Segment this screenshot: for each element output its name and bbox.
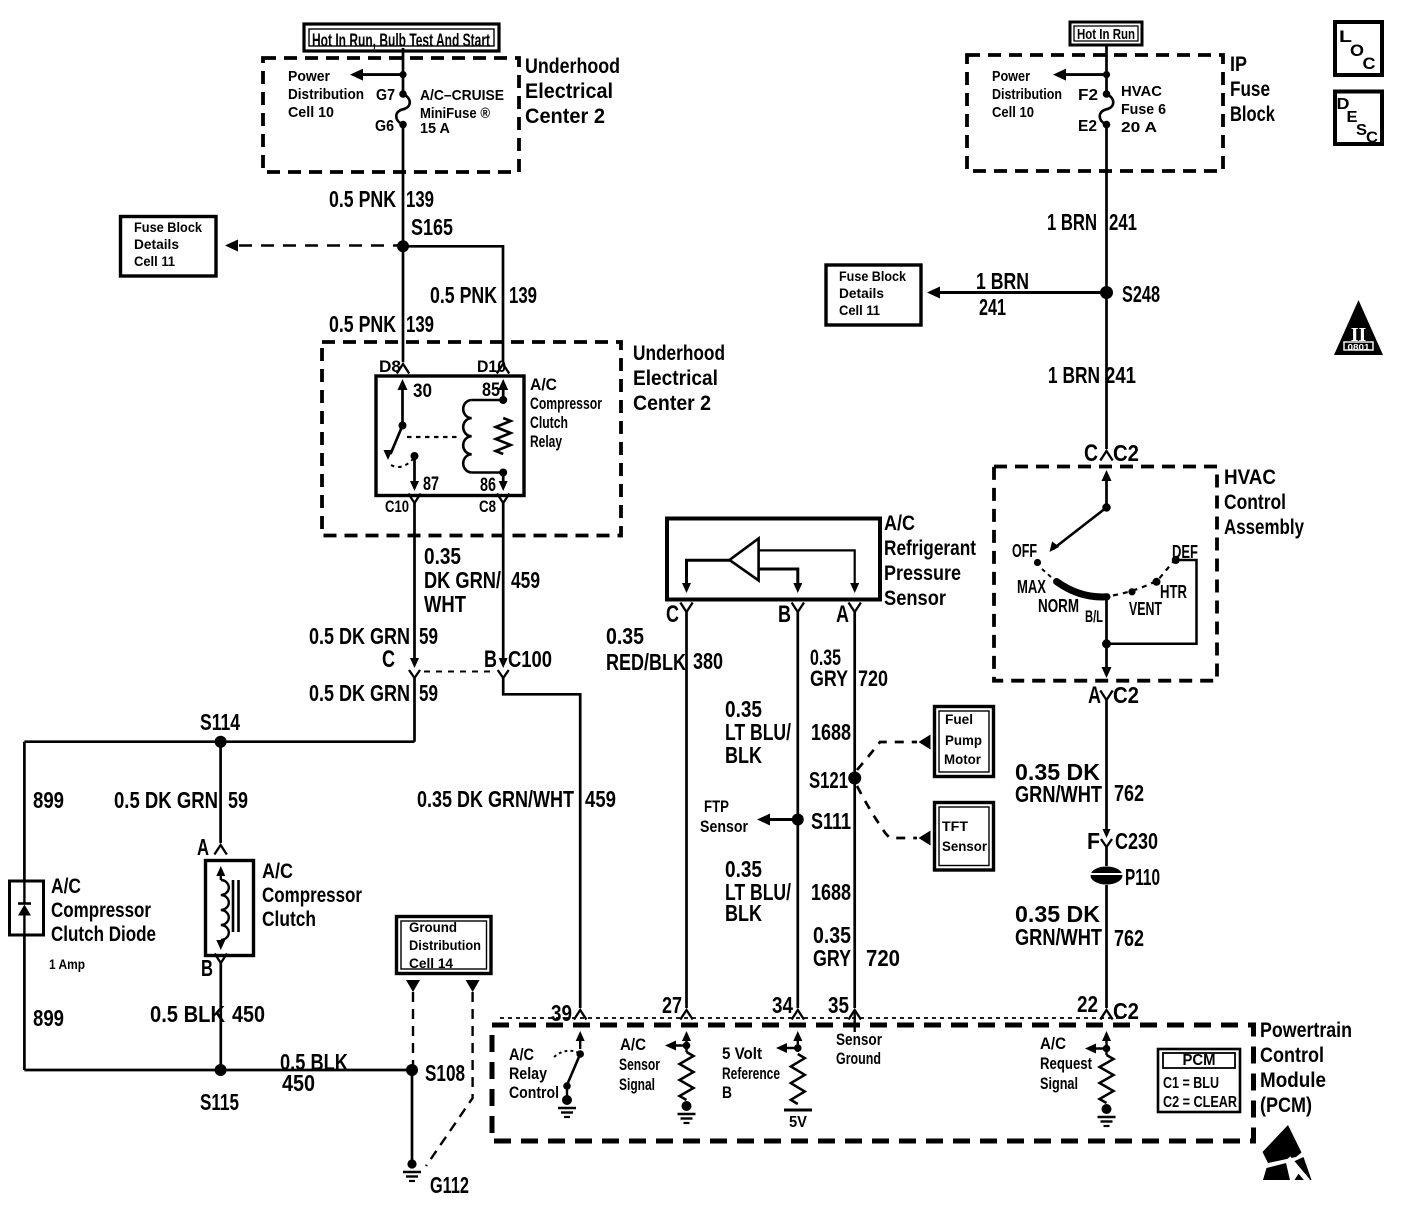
relay coil branch node	[499, 396, 507, 404]
svg-text:G6: G6	[375, 118, 394, 135]
svg-text:MAX: MAX	[1017, 577, 1046, 597]
node power distribution tap (IP)	[1103, 71, 1110, 78]
svg-text:Electrical: Electrical	[525, 80, 613, 103]
svg-text:S114: S114	[200, 709, 240, 735]
svg-text:Cell 11: Cell 11	[134, 253, 175, 269]
wire C230 to P110	[1105, 847, 1108, 866]
svg-text:Compressor: Compressor	[262, 884, 362, 907]
wire Hot In Run into IP fuse block	[1105, 45, 1108, 94]
splice S248	[1100, 286, 1113, 299]
svg-text:459: 459	[511, 567, 540, 593]
label box "Hot In Run, Bulb Test And Start"	[304, 24, 499, 51]
svg-text:Fuse: Fuse	[1230, 78, 1270, 101]
node power distribution tap	[399, 71, 406, 78]
relay switch dotted travel arc	[391, 459, 413, 467]
svg-text:HVAC: HVAC	[1224, 466, 1276, 489]
svg-text:0.5 BLK: 0.5 BLK	[150, 1001, 225, 1027]
wire C100-B to PCM pin 39 (459)	[503, 678, 580, 1008]
svg-text:0.35: 0.35	[606, 623, 644, 649]
svg-text:720: 720	[858, 666, 888, 691]
svg-text:27: 27	[662, 992, 682, 1018]
svg-text:1 BRN: 1 BRN	[1048, 362, 1100, 388]
svg-text:C8: C8	[479, 498, 496, 516]
svg-text:Fuse Block: Fuse Block	[134, 219, 202, 235]
sensor ground line to pin B	[759, 569, 798, 586]
box LOC	[1335, 22, 1382, 75]
wiper contact arc MAX-NORM-B/L (thick)	[1057, 582, 1108, 597]
HVAC output node	[1102, 639, 1111, 648]
sensor box A/C Refrigerant Pressure Sensor	[667, 519, 880, 600]
svg-text:C1 = BLU: C1 = BLU	[1163, 1075, 1219, 1092]
diode symbol	[23, 881, 25, 903]
svg-text:Signal: Signal	[619, 1075, 655, 1094]
clutch coil symbol	[216, 866, 225, 876]
svg-text:HVAC: HVAC	[1121, 83, 1162, 100]
dashed detent OFF-MAX	[1042, 569, 1051, 577]
svg-text:5V: 5V	[789, 1114, 807, 1131]
svg-text:C2: C2	[1113, 998, 1139, 1024]
svg-text:762: 762	[1114, 780, 1144, 806]
wire DEF to output node	[1107, 560, 1197, 644]
svg-text:0801: 0801	[1348, 343, 1371, 352]
relay mechanical link (dashed)	[407, 436, 461, 438]
svg-text:HTR: HTR	[1160, 582, 1187, 602]
relay pin 85 arrow	[498, 379, 508, 390]
svg-text:Motor: Motor	[944, 751, 982, 767]
splice S165	[397, 240, 409, 252]
svg-text:Cell 10: Cell 10	[992, 104, 1034, 121]
svg-text:FTP: FTP	[704, 797, 729, 816]
svg-text:Details: Details	[839, 285, 884, 301]
svg-text:0.5 DK GRN: 0.5 DK GRN	[309, 680, 410, 706]
svg-text:A/C: A/C	[262, 860, 293, 883]
svg-text:5 Volt: 5 Volt	[722, 1044, 762, 1063]
svg-text:IP: IP	[1230, 53, 1247, 76]
dashed box Powertrain Control Module	[492, 1025, 1254, 1141]
HVAC output wire with arrow	[1105, 644, 1108, 671]
svg-text:Underhood: Underhood	[633, 342, 725, 365]
svg-text:1 Amp: 1 Amp	[49, 956, 85, 972]
wire sensor A to PCM pin 35 (720)	[853, 612, 856, 1008]
svg-text:Refrigerant: Refrigerant	[884, 537, 976, 560]
relay switch blade	[391, 426, 403, 455]
svg-text:Power: Power	[288, 68, 330, 85]
svg-text:GRY: GRY	[813, 945, 851, 971]
dashed box HVAC Control Assembly	[994, 467, 1217, 681]
svg-text:1688: 1688	[811, 719, 851, 745]
svg-text:C2 = CLEAR: C2 = CLEAR	[1163, 1094, 1237, 1111]
svg-text:Center 2: Center 2	[525, 105, 605, 128]
splice S121	[848, 772, 861, 785]
svg-text:C: C	[382, 646, 395, 673]
svg-text:S115: S115	[200, 1089, 239, 1115]
svg-text:Compressor: Compressor	[51, 899, 151, 922]
svg-text:Clutch: Clutch	[530, 413, 568, 432]
svg-text:139: 139	[406, 186, 434, 212]
op-amp U1 (sensor amplifier)	[730, 539, 759, 581]
svg-text:Fuse Block: Fuse Block	[839, 268, 906, 284]
splice S114	[215, 736, 227, 748]
svg-text:G112: G112	[430, 1172, 469, 1198]
switch position DEF	[1172, 556, 1180, 564]
svg-text:Fuse 6: Fuse 6	[1121, 101, 1166, 118]
svg-text:87: 87	[423, 474, 439, 495]
ground G112	[407, 1159, 416, 1168]
wire B/L to output node	[1105, 597, 1108, 644]
wire diode to S115 rail	[23, 935, 26, 1070]
svg-text:0.5 PNK: 0.5 PNK	[329, 311, 396, 337]
wire C8 to C100 pin B	[502, 503, 505, 661]
svg-text:S108: S108	[425, 1060, 465, 1086]
svg-text:GRN/WHT: GRN/WHT	[1015, 924, 1102, 950]
dashed box Underhood Electrical Center 2 (fuse block)	[263, 58, 519, 172]
box TFT Sensor	[935, 803, 994, 871]
svg-text:NORM: NORM	[1038, 596, 1079, 616]
wire S165 down to relay pin D8	[402, 246, 405, 362]
svg-text:RED/BLK: RED/BLK	[606, 649, 686, 675]
wire S165 right branch to relay pin D10	[403, 246, 503, 362]
relay box A/C Compressor Clutch Relay	[376, 376, 524, 496]
triangle symbol II (cell reference)	[1334, 300, 1383, 355]
svg-text:C: C	[1084, 440, 1098, 467]
svg-text:F2: F2	[1078, 87, 1098, 104]
svg-text:A: A	[197, 834, 209, 860]
svg-text:899: 899	[33, 1005, 64, 1031]
wire C100-C down to S114 rail	[413, 678, 416, 742]
svg-text:S248: S248	[1122, 281, 1160, 307]
svg-text:BLK: BLK	[725, 742, 762, 768]
dashed box Underhood Electrical Center 2 (relay)	[322, 342, 621, 536]
svg-text:C: C	[1366, 130, 1378, 147]
wire S108 to ground G112	[411, 1070, 414, 1161]
wire S114 horizontal rail	[24, 740, 414, 743]
svg-text:22: 22	[1077, 991, 1098, 1017]
splice S111	[792, 814, 804, 826]
dashed ref S121 to TFT Sensor	[857, 786, 917, 838]
svg-text:B: B	[201, 955, 213, 981]
svg-text:Sensor: Sensor	[700, 817, 748, 836]
svg-text:A/C: A/C	[530, 375, 557, 394]
wire S114 down to clutch pin A	[219, 742, 222, 843]
svg-text:B: B	[722, 1083, 732, 1102]
svg-text:241: 241	[979, 294, 1006, 320]
svg-text:Center 2: Center 2	[633, 392, 711, 415]
ESD sensitive symbol	[1263, 1125, 1302, 1163]
wire C10 to C100 pin C	[413, 503, 416, 661]
svg-text:Pump: Pump	[945, 732, 982, 748]
switch position OFF	[1034, 559, 1041, 566]
PCM connector face dotted line	[500, 1017, 1122, 1019]
svg-text:C: C	[1363, 54, 1376, 73]
svg-text:15 A: 15 A	[420, 120, 450, 137]
svg-text:Control: Control	[1260, 1044, 1324, 1067]
svg-text:0.5 DK GRN: 0.5 DK GRN	[114, 787, 218, 813]
svg-text:E2: E2	[1078, 118, 1097, 135]
svg-text:A/C: A/C	[509, 1045, 534, 1064]
svg-text:S111: S111	[811, 808, 851, 834]
svg-text:G7: G7	[376, 87, 395, 104]
svg-text:1688: 1688	[811, 879, 851, 905]
grommet P110	[1091, 867, 1123, 885]
PCM pullup A/C Sensor Signal	[682, 1031, 691, 1041]
svg-text:C230: C230	[1115, 828, 1158, 854]
svg-text:Cell 10: Cell 10	[288, 104, 334, 121]
svg-text:S121: S121	[809, 767, 848, 793]
svg-text:VENT: VENT	[1129, 599, 1162, 619]
svg-text:Signal: Signal	[1040, 1074, 1078, 1093]
svg-text:241: 241	[1109, 209, 1137, 235]
arrow S111 to FTP Sensor	[769, 818, 798, 821]
svg-text:B: B	[778, 601, 791, 628]
svg-text:Distribution: Distribution	[409, 937, 481, 953]
svg-text:DK GRN/: DK GRN/	[424, 567, 501, 593]
svg-text:30: 30	[413, 381, 432, 402]
svg-text:C2: C2	[1113, 440, 1139, 466]
svg-text:Request: Request	[1040, 1054, 1092, 1073]
svg-text:0.5 PNK: 0.5 PNK	[430, 282, 497, 308]
svg-text:450: 450	[232, 1001, 265, 1027]
svg-text:0.35 DK GRN/WHT: 0.35 DK GRN/WHT	[417, 786, 574, 812]
wire clutch B to S115	[219, 963, 222, 1070]
dashed box IP Fuse Block	[967, 55, 1223, 171]
svg-text:Distribution: Distribution	[288, 86, 364, 103]
svg-text:TFT: TFT	[942, 818, 968, 834]
svg-text:Sensor: Sensor	[836, 1030, 882, 1049]
dashed ground ref to G112	[466, 980, 480, 992]
svg-text:Module: Module	[1260, 1069, 1326, 1092]
wire HVAC A to C230	[1105, 700, 1108, 831]
relay coil	[472, 399, 504, 401]
sensor output line to pin C	[687, 560, 732, 586]
relay pin 87 output	[411, 452, 419, 460]
svg-text:PCM: PCM	[1183, 1052, 1216, 1069]
connector C100 dashed mating line	[424, 671, 495, 673]
dashed ref S121 to Fuel Pump Motor	[857, 742, 917, 770]
relay pin 86 node	[499, 469, 507, 477]
svg-text:C100: C100	[508, 646, 552, 672]
wire S115 horizontal rail	[24, 1069, 412, 1072]
clutch plates	[232, 880, 235, 932]
svg-text:1 BRN: 1 BRN	[1047, 209, 1097, 235]
svg-text:Clutch Diode: Clutch Diode	[51, 923, 156, 946]
svg-text:Details: Details	[134, 236, 179, 252]
svg-text:C10: C10	[385, 498, 409, 516]
HVAC switch pivot	[1102, 503, 1110, 511]
svg-text:BLK: BLK	[725, 900, 762, 926]
svg-text:Hot In Run, Bulb Test And Star: Hot In Run, Bulb Test And Start	[312, 31, 490, 51]
dashed ground ref to S108	[406, 980, 420, 992]
svg-text:A/C: A/C	[51, 875, 81, 898]
svg-text:Compressor: Compressor	[530, 394, 602, 413]
svg-text:B/L: B/L	[1085, 607, 1103, 626]
arrow S248 to Fuse Block Details (right)	[940, 291, 1107, 294]
svg-text:Power: Power	[992, 68, 1030, 85]
diode box A/C Compressor Clutch Diode	[10, 881, 44, 935]
svg-text:Sensor: Sensor	[619, 1055, 660, 1074]
clutch box A/C Compressor Clutch	[206, 861, 254, 956]
wire left rail down to diode	[23, 742, 26, 881]
svg-text:Hot In Run: Hot In Run	[1077, 27, 1135, 43]
svg-text:(PCM): (PCM)	[1260, 1094, 1312, 1117]
PCM pullup A/C Request Signal	[1102, 1031, 1111, 1041]
svg-text:59: 59	[419, 623, 438, 649]
svg-text:GRN/WHT: GRN/WHT	[1015, 781, 1102, 807]
box Ground Distribution Cell 14	[397, 917, 492, 974]
svg-text:Assembly: Assembly	[1224, 516, 1304, 539]
relay coil suppression resistor	[496, 418, 511, 454]
svg-text:762: 762	[1114, 925, 1144, 951]
svg-text:459: 459	[585, 786, 616, 812]
svg-text:1 BRN: 1 BRN	[976, 268, 1029, 294]
svg-text:Pressure: Pressure	[884, 562, 961, 585]
svg-text:A: A	[1088, 682, 1101, 709]
svg-text:Control: Control	[1224, 491, 1286, 514]
box Fuel Pump Motor	[935, 707, 994, 777]
svg-text:34: 34	[772, 992, 793, 1018]
relay pin 30 arrow	[398, 379, 408, 390]
svg-text:Sensor: Sensor	[942, 838, 988, 854]
svg-text:S165: S165	[411, 214, 453, 240]
svg-text:Block: Block	[1230, 103, 1275, 126]
PCM legend box	[1158, 1049, 1240, 1112]
switch position VENT	[1128, 588, 1135, 595]
wire sensor C to PCM pin 27 (380)	[685, 612, 688, 1008]
wire from Hot In Run into fuse block	[402, 48, 405, 94]
PCM driver A/C Relay Control	[576, 1031, 585, 1041]
box Fuse Block Details Cell 11 (left)	[121, 217, 217, 277]
svg-text:Underhood: Underhood	[525, 55, 620, 78]
svg-text:A/C: A/C	[1040, 1034, 1066, 1053]
svg-text:450: 450	[282, 1070, 315, 1096]
fuse HVAC Fuse 6 20 A	[1103, 90, 1111, 98]
PCM Sensor Ground stub	[854, 1010, 856, 1032]
svg-text:35: 35	[828, 992, 849, 1018]
svg-text:A/C: A/C	[620, 1035, 646, 1054]
arrow to Power Distribution Cell 10	[362, 73, 403, 76]
splice S108	[406, 1064, 418, 1076]
svg-text:Ground: Ground	[836, 1049, 881, 1068]
svg-text:WHT: WHT	[424, 591, 466, 617]
svg-text:Reference: Reference	[722, 1064, 780, 1083]
svg-text:Sensor: Sensor	[884, 587, 946, 610]
svg-text:OFF: OFF	[1012, 541, 1037, 561]
label box "Hot In Run"	[1070, 22, 1142, 45]
PCM 5 Volt Reference B	[793, 1031, 802, 1041]
svg-text:C2: C2	[1113, 682, 1139, 708]
fuse F1 A/C-CRUISE MiniFuse 15 A	[399, 90, 407, 98]
switch position HTR	[1153, 578, 1161, 586]
svg-text:Distribution: Distribution	[992, 86, 1062, 103]
svg-text:39: 39	[551, 1000, 572, 1026]
svg-text:Relay: Relay	[509, 1064, 547, 1083]
wire fuse to S248	[1105, 125, 1108, 293]
box Fuse Block Details Cell 11 (right)	[826, 265, 921, 325]
svg-text:899: 899	[33, 787, 64, 813]
svg-text:F: F	[1087, 828, 1100, 854]
svg-text:85: 85	[482, 380, 500, 401]
svg-text:A/C: A/C	[884, 512, 915, 535]
svg-text:P110: P110	[1125, 864, 1160, 890]
HVAC switch feed arrow	[1102, 470, 1112, 481]
svg-text:720: 720	[866, 945, 900, 971]
svg-text:Control: Control	[509, 1083, 559, 1102]
svg-text:Clutch: Clutch	[262, 908, 316, 931]
svg-text:A/C–CRUISE: A/C–CRUISE	[420, 87, 504, 104]
svg-text:Cell 14: Cell 14	[409, 955, 453, 971]
svg-text:Relay: Relay	[530, 432, 562, 451]
svg-text:GRY: GRY	[810, 666, 848, 691]
wire fuse to S165	[402, 125, 405, 247]
wire P110 to PCM pin 22	[1105, 885, 1108, 1008]
svg-text:Electrical: Electrical	[633, 367, 718, 390]
box DESC	[1335, 92, 1382, 145]
svg-text:20 A: 20 A	[1121, 119, 1157, 136]
HVAC switch blade to OFF	[1053, 508, 1107, 550]
dashed arrow S165 to Fuse Block Details	[239, 244, 401, 247]
svg-text:Cell 11: Cell 11	[839, 302, 880, 318]
svg-text:0.35: 0.35	[424, 543, 461, 569]
connector F C230	[1103, 829, 1111, 838]
svg-text:Fuel: Fuel	[945, 711, 973, 727]
sensor supply line to pin A	[759, 550, 855, 586]
arrow to Power Distribution Cell 10 (IP)	[1066, 73, 1107, 76]
svg-text:380: 380	[693, 648, 723, 674]
svg-text:241: 241	[1105, 362, 1136, 388]
svg-text:C: C	[666, 601, 679, 628]
wire S248 down to HVAC C2	[1105, 293, 1108, 450]
relay switch pivot	[399, 422, 407, 430]
svg-text:Ground: Ground	[409, 919, 457, 935]
svg-text:B: B	[484, 646, 497, 673]
svg-text:59: 59	[228, 787, 248, 813]
splice S115	[215, 1064, 227, 1076]
svg-text:Powertrain: Powertrain	[1260, 1019, 1352, 1042]
svg-text:139: 139	[406, 311, 434, 337]
dashed arc B/L-VENT-HTR-DEF	[1113, 562, 1173, 596]
svg-text:0.5 PNK: 0.5 PNK	[329, 186, 396, 212]
svg-text:139: 139	[509, 282, 537, 308]
svg-text:A: A	[836, 601, 849, 628]
wire sensor B to PCM pin 34 (1688)	[796, 612, 799, 1008]
svg-text:59: 59	[419, 680, 438, 706]
svg-text:86: 86	[480, 475, 496, 496]
